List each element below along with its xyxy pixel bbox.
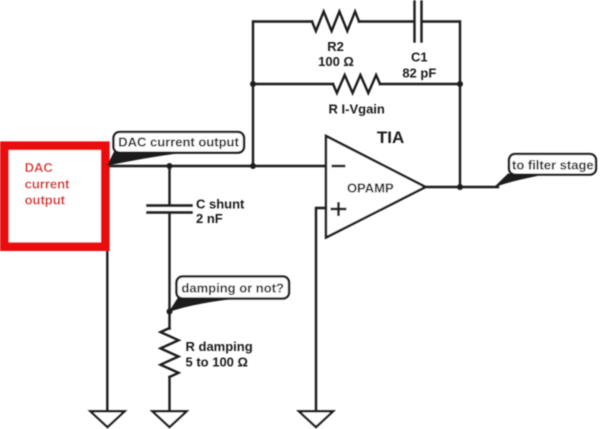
svg-text:R2: R2 <box>327 39 344 54</box>
callout: damping or not? <box>169 277 290 313</box>
wire: R I-Vgain branch right segment <box>380 83 460 85</box>
svg-text:current: current <box>25 176 70 191</box>
wire: C shunt top lead <box>168 166 170 205</box>
svg-text:OPAMP: OPAMP <box>347 181 394 196</box>
resistor R2 <box>312 12 359 32</box>
wire: DAC output to op-amp inverting input <box>109 165 326 167</box>
wire: C1 to right feedback vertical <box>423 22 460 188</box>
wire: op-amp non-inverting input to ground <box>316 208 326 412</box>
ground (shunt/damping branch) <box>153 411 187 427</box>
op-amp inverting input marker (minus) <box>332 165 346 168</box>
resistor R damping <box>161 328 179 377</box>
svg-text:C1: C1 <box>411 50 428 65</box>
wire: R damping to ground <box>168 377 170 412</box>
svg-text:to filter stage: to filter stage <box>512 157 594 172</box>
node: DAC output junction <box>105 163 111 169</box>
svg-text:damping or not?: damping or not? <box>181 281 284 296</box>
wire: DAC bottom to ground <box>106 250 108 412</box>
svg-text:DAC: DAC <box>25 160 54 175</box>
node: R I-Vgain right junction <box>457 81 463 87</box>
node: R I-Vgain left junction <box>250 81 256 87</box>
wire: C shunt bottom lead to damping node <box>168 213 170 328</box>
svg-text:2 nF: 2 nF <box>196 211 223 226</box>
svg-text:5 to 100 Ω: 5 to 100 Ω <box>186 355 248 370</box>
node: output feedback junction <box>457 184 463 190</box>
ground (DAC block) <box>91 411 125 427</box>
node: C shunt junction <box>167 163 173 169</box>
wire: R2 to C1 <box>359 20 413 22</box>
svg-text:100 Ω: 100 Ω <box>318 54 354 69</box>
svg-text:R I-Vgain: R I-Vgain <box>329 102 385 117</box>
DAC source block (red box) <box>4 146 105 247</box>
svg-text:82 pF: 82 pF <box>402 66 436 81</box>
capacitor C shunt <box>148 206 192 213</box>
svg-text:R damping: R damping <box>186 339 253 354</box>
wire: feedback top-left segment <box>253 22 312 167</box>
ground (op-amp non-inverting input) <box>299 411 333 427</box>
callout: to filter stage <box>494 154 597 188</box>
wire: op-amp output to filter stage <box>426 186 499 188</box>
resistor R I-Vgain <box>333 75 380 93</box>
callout: DAC current output <box>107 132 244 166</box>
op-amp U1 TIA body <box>326 136 426 238</box>
svg-text:C shunt: C shunt <box>196 197 245 212</box>
svg-text:DAC current output: DAC current output <box>118 135 239 150</box>
node: feedback left junction on input wire <box>250 163 256 169</box>
svg-text:TIA: TIA <box>377 128 404 147</box>
op-amp non-inverting input marker (plus) <box>331 202 347 216</box>
svg-text:output: output <box>25 193 66 208</box>
wire: R I-Vgain branch left segment <box>253 83 333 85</box>
capacitor C1 <box>415 2 422 42</box>
node: damping question junction <box>167 309 173 315</box>
